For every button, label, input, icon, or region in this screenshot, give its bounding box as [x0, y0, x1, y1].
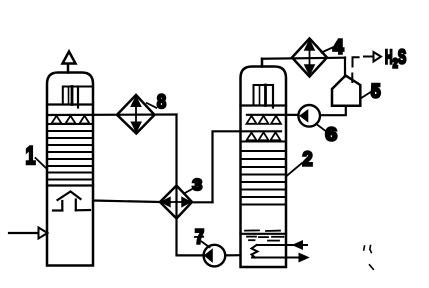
label 1 tick [36, 158, 48, 169]
pump 7 rotor triangle [205, 249, 213, 261]
label 2 tick [286, 163, 302, 177]
wire: riser to column 2 spray header [213, 131, 282, 202]
wire: pump 7 discharge [177, 254, 204, 256]
wire: H2S outlet corner [353, 57, 359, 66]
wire: exchanger 3 to riser [192, 201, 213, 203]
wire: exchanger 4 to separator [344, 58, 346, 77]
feed gas arrow [39, 228, 48, 239]
svg-text:6: 6 [326, 125, 338, 145]
svg-text:S: S [398, 47, 407, 69]
label 5 tick [361, 92, 372, 99]
pump 7 circle [204, 245, 226, 267]
wire: condensate outlet line [252, 257, 301, 259]
label 7 [195, 227, 204, 249]
heat exchanger 8 diamond [117, 95, 155, 134]
reboiler coil zigzag [252, 245, 258, 258]
pump 6 rotor triangle [300, 110, 308, 122]
heat exchanger 3 diamond [160, 186, 192, 219]
label 3 tick [184, 189, 193, 194]
wire: overhead vapour to exchanger 4 [262, 58, 345, 59]
pump 6 circle [298, 105, 320, 127]
column 1 vent arrow [63, 52, 76, 64]
label 8 tick [147, 103, 157, 108]
column 2 demister box [254, 85, 274, 108]
H2S text [385, 47, 406, 71]
wire: feed gas line [9, 232, 38, 234]
column 2 shell (regenerator) [241, 67, 287, 268]
column 1 gas inlet block arrow [53, 192, 90, 211]
label 7 tick [202, 242, 210, 248]
column 2 spray nozzles row 1 [247, 116, 282, 124]
column 1 trays [47, 124, 93, 180]
column 1 shell (absorber) [47, 73, 93, 266]
svg-text:3: 3 [193, 177, 203, 194]
wire: H2S arrow line [364, 56, 374, 58]
column 2 packing support line [241, 141, 287, 143]
heat exchanger 4 flow arrows [305, 40, 315, 75]
separator 5 dip tube [351, 74, 353, 83]
wire: spray header column 1 to exchanger 8 [49, 113, 177, 116]
H2S arrowhead [374, 52, 382, 62]
svg-text:5: 5 [371, 82, 381, 103]
column 1 vent stub [67, 64, 70, 73]
steam inlet arrowhead [293, 241, 303, 249]
column 1 section divider [47, 184, 93, 186]
column 1 demister box [63, 87, 93, 108]
column 1 packing support line [47, 103, 93, 105]
column 2 spray nozzles row 2 [247, 132, 281, 140]
wire: rich solution column 1 to exchanger 3 [93, 201, 159, 203]
label 4 tick [322, 48, 333, 53]
label 6 tick [316, 124, 325, 131]
wire: pump 6 discharge into column 2 spray header [247, 114, 298, 116]
column 1 spray nozzles [52, 116, 90, 124]
column 2 trays [241, 151, 287, 205]
heat exchanger 3 flow arrows [160, 197, 192, 207]
column 2 demister support line [241, 104, 287, 106]
heat exchanger 8 flow arrows [131, 96, 141, 132]
svg-text:8: 8 [157, 92, 166, 113]
scan speckles [364, 246, 374, 270]
heat exchanger 4 diamond [292, 39, 327, 77]
wire: separator bottoms to pump 6 [320, 106, 346, 115]
svg-text:H: H [385, 48, 393, 69]
column 2 overhead stub [261, 59, 264, 67]
svg-text:4: 4 [333, 36, 344, 59]
separator 5 body [332, 76, 360, 106]
column 2 liquid level dashes [241, 230, 287, 240]
svg-text:2: 2 [303, 149, 313, 171]
wire: lean solution vertical through exchanger 3 [175, 115, 177, 256]
wire: pump 7 suction from column 2 [225, 254, 240, 256]
wire: steam inlet line [257, 244, 307, 246]
condensate outlet arrowhead [299, 253, 309, 261]
svg-text:1: 1 [26, 142, 36, 170]
